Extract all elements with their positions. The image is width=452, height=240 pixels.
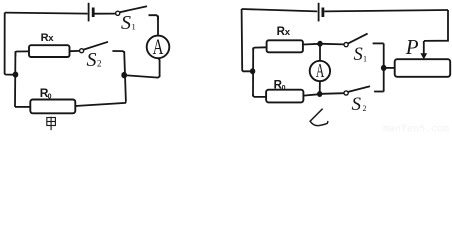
wire inner-left vertical (right circuit)	[252, 48, 254, 96]
wire Rx left lead (right circuit)	[253, 47, 266, 50]
svg-text:S: S	[354, 45, 363, 65]
wire right vertical to ammeter (left circuit)	[157, 16, 159, 36]
wire right switch vertical (right circuit)	[383, 43, 385, 91]
svg-text:S: S	[352, 94, 362, 115]
wire inner-left corner to Rx	[15, 51, 29, 56]
rheostat R P body	[395, 59, 451, 77]
resistor Rx (left circuit)	[29, 45, 70, 57]
svg-text:0: 0	[48, 94, 52, 101]
rheostat P slider arrowhead	[420, 53, 427, 59]
ammeter A2 circle	[310, 61, 330, 81]
wire inner-left vertical (left circuit)	[14, 53, 16, 107]
node junction left (left circuit)	[13, 72, 19, 78]
wire junction to switch S2 (right circuit)	[322, 92, 344, 95]
switch S2 blade (right circuit)	[348, 86, 370, 92]
svg-text:1: 1	[363, 55, 367, 64]
switch S2 contact stub	[112, 51, 124, 52]
wire battery to switch S1	[95, 13, 116, 15]
svg-text:S: S	[87, 49, 97, 71]
label yi (right circuit)	[310, 109, 328, 126]
svg-text:1: 1	[132, 22, 136, 32]
wire ammeter bottom lead (right circuit)	[319, 81, 321, 94]
resistor R0 (right circuit)	[266, 90, 303, 103]
switch S1 blade	[120, 6, 147, 12]
resistor Rx (right circuit)	[267, 40, 303, 52]
node junction bottom ammeter (right circuit)	[317, 91, 322, 97]
switch S1 pivot circle (right circuit)	[344, 43, 348, 47]
wire R0 right lead (right circuit)	[303, 94, 319, 95]
battery G2 short plate	[321, 8, 324, 18]
switch S2 pivot circle (right circuit)	[344, 91, 348, 95]
ammeter A1 circle	[147, 36, 170, 59]
battery G2 long plate	[318, 3, 320, 22]
wire R0 left lead (left circuit)	[15, 106, 30, 108]
switch S2 contact stub (right circuit)	[374, 91, 384, 93]
node junction right (left circuit)	[121, 72, 127, 78]
switch S1 contact stub (right circuit)	[373, 42, 384, 44]
svg-text:manfen5.com: manfen5.com	[383, 124, 449, 134]
svg-text:0: 0	[282, 85, 286, 92]
wire Rx to switch S2	[70, 50, 80, 52]
svg-text:S: S	[121, 12, 131, 34]
wire rheostat left lead	[386, 67, 395, 69]
svg-text:P: P	[405, 35, 419, 59]
wire outer-left vertical with jog (left circuit)	[5, 13, 13, 75]
svg-text:2: 2	[97, 59, 102, 69]
svg-text:A: A	[316, 60, 325, 82]
wire switch-contact vertical through junction (left circuit)	[124, 51, 126, 101]
wire outer-left vertical with jog (right circuit)	[242, 9, 250, 71]
wire top horizontal right part (right circuit)	[324, 10, 448, 11]
switch S2 blade	[84, 42, 108, 50]
battery G1 long plate	[88, 3, 90, 22]
switch S1 blade (right circuit)	[348, 34, 368, 44]
switch S1 pivot circle	[116, 11, 120, 15]
battery G1 short plate	[92, 8, 95, 18]
wire top-left horizontal (left circuit)	[5, 13, 88, 14]
wire right vertical down to rheostat arrow (right circuit)	[424, 10, 448, 41]
rheostat P slider arrow shaft	[423, 41, 425, 55]
resistor R0 (left circuit)	[30, 100, 75, 114]
wire R0 left lead (right circuit)	[253, 95, 266, 97]
switch S1 contact stub	[149, 15, 159, 20]
switch S2 pivot circle	[80, 49, 84, 53]
wire Rx right lead (right circuit)	[303, 43, 320, 46]
svg-text:2: 2	[363, 104, 367, 113]
wire ammeter bottom to corner (left circuit)	[127, 58, 160, 77]
wire junction to switch S1 (right circuit)	[322, 43, 344, 46]
wire R0 right lead to corner (left circuit)	[75, 102, 126, 106]
svg-text:A: A	[153, 34, 164, 59]
node junction top ammeter (right circuit)	[317, 41, 322, 47]
node junction left (right circuit)	[250, 68, 255, 74]
svg-text:x: x	[285, 27, 291, 38]
label jia (left circuit)	[47, 117, 56, 130]
wire top horizontal left part (right circuit)	[242, 9, 318, 11]
node junction rheostat-switch (right circuit)	[381, 65, 387, 71]
wire ammeter top lead (right circuit)	[319, 44, 321, 61]
svg-text:x: x	[48, 33, 54, 44]
